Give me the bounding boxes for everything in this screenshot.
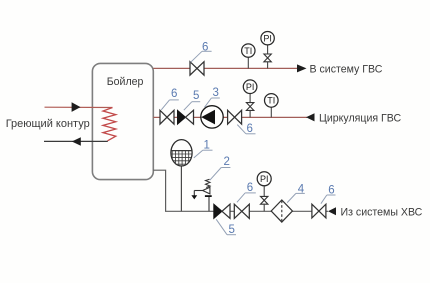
label 6 (inlet) <box>321 185 336 204</box>
heating coil <box>103 108 116 141</box>
arrow to DHW system <box>297 64 307 72</box>
label 3 <box>205 87 220 108</box>
manometer PI with cock (bottom pipe) <box>257 172 271 212</box>
thermometer TI (top pipe) <box>242 44 255 69</box>
svg-text:Бойлер: Бойлер <box>107 76 144 88</box>
svg-text:Циркуляция ГВС: Циркуляция ГВС <box>319 112 401 124</box>
svg-text:PI: PI <box>263 33 272 43</box>
arrow circulation (points left) <box>306 113 315 121</box>
svg-text:5: 5 <box>229 224 235 236</box>
svg-text:5: 5 <box>193 90 199 102</box>
pump 3 <box>201 106 223 128</box>
valve 6 (bottom, inlet) <box>312 204 326 218</box>
heating supply line (red) <box>45 102 113 112</box>
svg-text:2: 2 <box>224 156 230 168</box>
svg-text:PI: PI <box>246 82 255 92</box>
middle circulation pipe <box>153 116 307 118</box>
boiler vessel <box>92 63 153 179</box>
label 6 (middle) <box>161 88 179 110</box>
label 6 (bottom) <box>237 182 256 202</box>
check valve 5 (middle) <box>178 110 194 124</box>
valve 6 (middle, after pump) <box>228 110 242 124</box>
expansion tank 1 <box>170 140 193 212</box>
svg-text:Греющий контур: Греющий контур <box>6 118 90 130</box>
check valve 5 (bottom) <box>214 204 230 218</box>
manometer PI with cock (middle pipe) <box>243 80 257 118</box>
svg-text:3: 3 <box>213 87 219 99</box>
label 2 <box>210 156 231 180</box>
label 4 <box>287 184 305 203</box>
svg-text:TI: TI <box>267 96 275 106</box>
arrow from cold water system (points left) <box>328 207 336 215</box>
label 1 <box>194 140 213 158</box>
label 6 (below pipe) <box>237 123 255 135</box>
manometer PI with cock (top pipe) <box>261 32 274 69</box>
svg-text:TI: TI <box>244 46 252 56</box>
filter 4 (diamond) <box>271 200 292 222</box>
heating return line (black) <box>44 137 108 145</box>
svg-text:Из системы ХВС: Из системы ХВС <box>341 206 423 218</box>
valve 6 (middle, near boiler) <box>160 110 174 124</box>
svg-text:6: 6 <box>247 123 253 135</box>
label 5 (bottom) <box>216 219 236 236</box>
label 6 (top) <box>191 41 212 62</box>
svg-text:В систему ГВС: В систему ГВС <box>310 63 383 75</box>
label 5 (middle) <box>184 90 200 110</box>
safety valve 2 <box>191 179 211 211</box>
svg-text:6: 6 <box>171 88 177 100</box>
svg-text:PI: PI <box>260 174 269 184</box>
top hot pipe (to DHW system) <box>153 67 298 69</box>
thermometer TI (middle pipe) <box>265 94 279 118</box>
valve 6 (top pipe) <box>190 62 204 75</box>
valve 6 (bottom, after check valve) <box>234 204 249 218</box>
cold water bottom pipe <box>153 170 328 211</box>
